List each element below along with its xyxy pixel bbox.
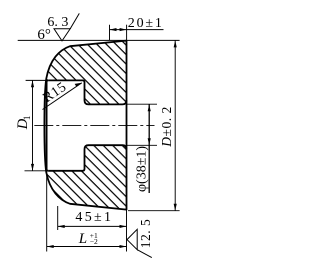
hatch top cap bbox=[46, 41, 126, 105]
hatch bottom cap bbox=[46, 145, 126, 209]
svg-text:L: L bbox=[78, 231, 87, 247]
R15 leader bbox=[43, 83, 82, 110]
svg-text:−2: −2 bbox=[90, 237, 98, 246]
centerline bbox=[34, 124, 154, 126]
svg-text:φ(38±1): φ(38±1) bbox=[135, 146, 150, 192]
20+-1 dimension bbox=[109, 25, 111, 41]
surface finish symbol top bbox=[54, 29, 70, 41]
phi 38 dimension bbox=[127, 103, 158, 105]
D+-0.2 dimension bbox=[128, 210, 180, 212]
svg-text:1: 1 bbox=[23, 115, 33, 120]
svg-text:6°: 6° bbox=[37, 27, 51, 43]
top reference line bbox=[18, 39, 180, 41]
surface finish symbol bottom (12.5) bbox=[127, 229, 137, 249]
D1 dimension bbox=[26, 79, 47, 81]
outer profile bbox=[44, 41, 126, 210]
svg-text:20±1: 20±1 bbox=[128, 16, 164, 31]
cavity outline upper bbox=[48, 80, 126, 104]
L dimension bbox=[46, 172, 48, 252]
cavity left wall bbox=[47, 80, 49, 170]
svg-text:45±1: 45±1 bbox=[75, 210, 113, 225]
45+-1 dimension bbox=[57, 206, 59, 230]
svg-text:12. 5: 12. 5 bbox=[138, 219, 153, 249]
svg-text:D±0. 2: D±0. 2 bbox=[159, 106, 174, 147]
cavity outline lower bbox=[48, 145, 126, 171]
